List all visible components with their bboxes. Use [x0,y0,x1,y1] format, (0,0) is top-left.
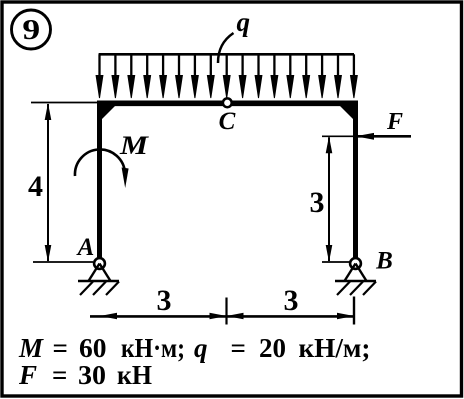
dim 4: top extension line [31,102,97,104]
beam (top horizontal member) [97,101,358,107]
svg-text:3: 3 [284,284,299,317]
moment M arc [75,149,125,176]
support A left leg [89,264,100,282]
dim 4: bottom extension line [33,261,93,263]
bottom dim mid-right arrowhead [227,313,244,320]
bottom dimension line [90,315,354,318]
dim 3 right: vertical dimension line [328,137,330,261]
moment M arrowhead [122,168,129,189]
force F line [357,135,411,138]
support B ground line [335,280,376,283]
svg-text:=: = [53,333,68,363]
svg-text:кН·м;: кН·м; [121,333,185,363]
given values text line 1 [18,333,371,363]
dim 4: up arrowhead [45,103,52,120]
support B right leg [356,264,367,282]
support A right leg [100,264,111,282]
svg-text:60: 60 [79,333,107,363]
svg-text:=: = [52,360,67,390]
svg-text:20: 20 [259,333,286,363]
svg-text:9: 9 [22,14,40,45]
distributed load arrows (17) [96,54,357,98]
svg-text:F: F [18,360,37,390]
bottom dim right tick [353,297,355,325]
support A ground line [78,280,119,283]
dim 4: vertical dimension line [47,104,49,261]
svg-text:M: M [119,131,149,160]
svg-text:4: 4 [28,170,43,203]
circled task number 9 [12,10,51,49]
force F arrowhead [356,133,375,140]
dim 3 right: down arrowhead [326,245,333,262]
hinge C circle [223,98,232,107]
support A pin circle [94,258,105,269]
support B left leg [345,264,356,282]
svg-text:F: F [386,109,403,135]
left column member [97,101,102,264]
svg-text:кН: кН [117,360,152,390]
right column member [353,101,358,264]
dim 3 right: top extension line [322,135,353,137]
bottom dim middle tick [225,298,227,325]
support A hatching [80,282,119,296]
given values text line 2 [18,360,152,390]
top-left corner fillet [102,106,115,119]
svg-text:M: M [18,333,44,363]
svg-text:A: A [76,234,95,261]
dim 3 right: up arrowhead [326,136,333,153]
svg-text:q: q [194,333,208,363]
svg-text:30: 30 [78,360,106,390]
q leader line [218,33,234,63]
svg-text:=: = [231,333,246,363]
svg-text:C: C [219,108,236,135]
svg-text:q: q [237,7,251,37]
svg-text:3: 3 [157,284,172,317]
top-right corner fillet [340,106,353,119]
svg-text:кН/м;: кН/м; [299,333,371,363]
dim 4: down arrowhead [45,245,52,262]
bottom dim right arrowhead [337,313,354,320]
svg-text:B: B [375,248,393,275]
distributed load top line [99,53,354,56]
support B pin circle [350,258,361,269]
svg-text:3: 3 [310,186,325,219]
support B hatching [337,282,376,296]
bottom dim left arrowhead [100,313,117,320]
dim 3 right: bottom extension line [322,261,353,263]
bottom dim mid-left arrowhead [210,313,227,320]
